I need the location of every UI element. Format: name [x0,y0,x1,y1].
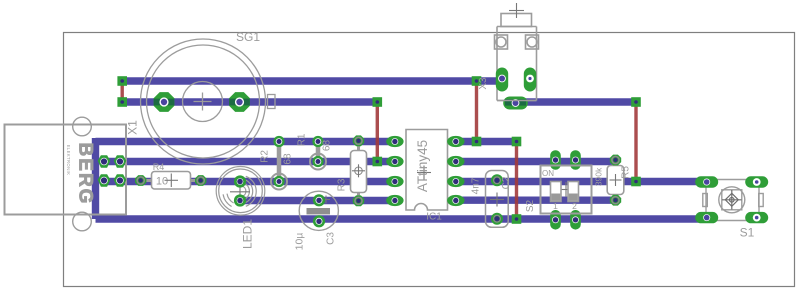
X1 mounting hole bottom [73,212,92,231]
svg-text:10µ: 10µ [294,233,306,251]
capacitor C3 (electrolytic) [299,191,338,230]
svg-text:C3: C3 [326,232,337,245]
wire row2 right [456,158,616,165]
svg-text:R5: R5 [621,166,632,179]
wire row3 left [104,178,394,185]
pad S2-2 [570,150,581,170]
via V7 [512,137,522,147]
speaker SG1 [141,39,276,164]
pad R5-2 [610,195,621,206]
svg-text:BERG: BERG [75,143,96,206]
pad C2-2 [491,213,503,225]
svg-text:1: 1 [553,201,558,211]
svg-text:S2: S2 [525,199,536,212]
pad IC1-2 [386,156,403,167]
svg-text:R2: R2 [260,150,271,163]
resistor R2 (standing) [271,142,287,190]
via V5 [373,97,383,107]
vias (green squares) [117,76,640,224]
svg-text:SG1: SG1 [236,30,260,44]
pad SG1 P1 [154,92,175,112]
svg-text:ELEKTRONIK: ELEKTRONIK [66,145,71,176]
S2 body edge over pads [541,165,592,167]
wire red via link left [120,81,123,102]
via V8 [512,214,522,224]
via V9 [631,97,641,107]
via V6 [373,157,383,167]
switch S1 body [703,180,763,221]
resistor R1 (standing) [310,142,326,170]
wire red speaker to IC pin [376,102,379,162]
pad LED1 K [234,194,246,206]
wire red battery to S1 [634,102,637,182]
svg-text:390k: 390k [594,167,604,186]
svg-text:X1: X1 [126,120,140,135]
via V10 [631,177,641,187]
pad R4-1 [135,175,146,186]
resistor R4 [141,172,201,190]
wires: bottom copper (blue) [96,81,708,219]
pad IC1-6 [447,176,464,187]
wire row4 right [456,196,616,203]
pad R5-1 [610,155,621,166]
X3 body edge over pad [497,100,537,102]
pad S1-3 [695,212,718,223]
pad IC1-3 [386,176,403,187]
pad S1-1 [695,176,718,187]
battery holder X3 outline [495,14,539,101]
pad X3-1 [496,68,508,92]
pad S2-3 [550,210,561,230]
resistor R5 [607,160,624,200]
pad R3-1 [353,135,364,146]
pad IC1-5 [447,195,464,206]
svg-text:S1: S1 [740,226,755,240]
wire net VCC row A [122,77,500,84]
wire battery row B right [514,98,636,105]
via V1 [117,76,127,86]
svg-text:LED1: LED1 [241,219,255,249]
pad IC1-7 [447,156,464,167]
pad R1-1 [312,136,323,147]
via V4 [472,137,482,147]
IC1 ATtiny45 body [406,130,448,211]
wire red IC row1 to ground [515,142,518,220]
via V3 [472,76,482,86]
pad X3-3 [503,97,528,110]
pad R1-2 [312,156,323,167]
svg-text:R4: R4 [153,162,165,172]
wire row1 left [96,138,395,145]
via V2 [117,97,127,107]
pad S1-4 [745,212,768,223]
pad S2-4 [570,210,581,230]
svg-text:68: 68 [283,153,294,165]
svg-text:R3: R3 [337,178,348,191]
svg-text:ATtiny45: ATtiny45 [415,140,430,192]
wire row3 right [456,178,708,185]
wire red X3 to IC row1 [475,81,478,142]
pad S2-1 [550,150,561,170]
wire row1 right [456,138,517,145]
pad X1-3 [98,174,111,187]
connector X1 (USB) body [5,125,127,215]
resistor R3 [351,141,367,201]
svg-text:4n7: 4n7 [471,177,482,194]
capacitor C2 outline [486,171,509,228]
pad X1-4 [114,174,127,187]
pad C3 + [313,194,325,206]
wire left vertical [92,138,99,219]
pad R3-2 [353,195,364,206]
svg-text:C2: C2 [501,176,512,189]
LED1 [216,167,265,216]
pad C2-1 [491,174,503,186]
svg-text:X3: X3 [478,77,489,90]
wires: top copper (red) [122,81,636,219]
pad R2-2 [273,176,284,187]
svg-text:2: 2 [572,201,577,211]
pad IC1-8 [447,136,464,147]
X1 mounting hole top [73,117,92,136]
wire row4 left [240,197,394,204]
svg-text:IC1: IC1 [426,212,442,223]
pad R2-1 [273,136,284,147]
pad LED1 A [234,175,246,187]
svg-text:10: 10 [156,176,168,188]
wire row2 left [104,158,394,165]
svg-text:ON: ON [542,169,554,178]
switch S2 (DIP) body [541,166,592,214]
svg-text:R1: R1 [297,133,308,146]
pad C3 - [313,215,325,227]
wire speaker row B left [122,98,377,105]
pad X1-2 [114,155,127,168]
pad X1-1 [98,155,111,168]
pad R4-2 [195,175,206,186]
svg-text:68: 68 [322,140,333,152]
pad IC1-4 [386,195,403,206]
via hole dots [120,79,124,83]
pad SG1 P2 [229,92,250,112]
pad IC1-1 [386,136,403,147]
pad X3-2 [524,68,536,92]
wire row5 ground [96,215,708,222]
pad S1-2 [745,176,768,187]
